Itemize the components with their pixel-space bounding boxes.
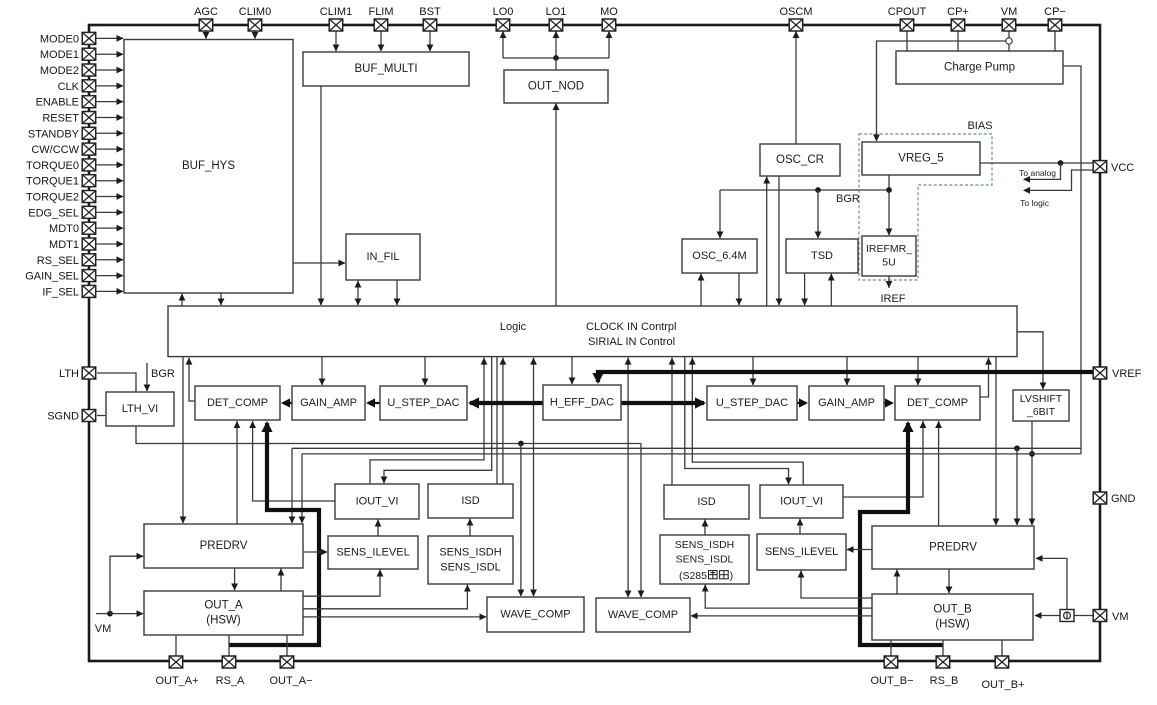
wire PREDRV left to OUT_A [231, 568, 238, 591]
pin OUT_A+ [155, 656, 198, 687]
wire GAIN_AMP right to DET_COMP right [884, 398, 894, 407]
wire CLIM1 to BUF_MULTI [333, 31, 340, 52]
block OUT_B HSW [872, 594, 1033, 640]
svg-text:VM: VM [1112, 611, 1129, 623]
svg-text:BGR: BGR [836, 193, 860, 205]
block ISD left [428, 484, 513, 518]
pin RS_SEL [37, 254, 96, 267]
wire bus B horizontal [292, 445, 1081, 451]
wire LTH pin to LTH_VI [97, 373, 136, 392]
svg-text:MODE1: MODE1 [40, 49, 79, 61]
wire IOUT_VI right output to DET_COMP right [843, 421, 926, 497]
wire CP- to Charge Pump [1054, 31, 1056, 51]
svg-text:IREF: IREF [880, 293, 905, 305]
wire MODE0 to BUF_HYS [96, 35, 124, 42]
wire bus C to PREDRV left [299, 454, 306, 524]
svg-text:OUT_NOD: OUT_NOD [528, 81, 584, 93]
svg-text:CPOUT: CPOUT [888, 6, 927, 18]
block WAVE_COMP left [487, 597, 584, 632]
block DET_COMP right [895, 386, 980, 420]
label To analog [1019, 168, 1056, 178]
wire CP+ to Charge Pump [957, 31, 959, 51]
svg-text:WAVE_COMP: WAVE_COMP [608, 609, 678, 621]
wire thick H_EFF_DAC to U_STEP_DAC right [621, 397, 706, 408]
pin MO [600, 6, 618, 31]
wire IN_FIL bottom to Logic [394, 280, 401, 306]
block U_STEP_DAC left [380, 386, 467, 420]
svg-text:(S285: (S285 [679, 570, 707, 582]
wire bus B to PREDRV left [289, 448, 296, 523]
wire SENS_ILEVEL right to IOUT_VI right [797, 519, 804, 535]
pin STANDBY [28, 127, 96, 140]
wire Logic to IOUT_VI right top (lower) [685, 357, 792, 485]
pin MODE0 [40, 32, 96, 45]
wire Logic to H_EFF_DAC [569, 357, 576, 385]
svg-text:MODE0: MODE0 [40, 33, 79, 45]
svg-text:CLK: CLK [58, 81, 80, 93]
block ISD right [664, 485, 749, 519]
block LTH_VI [106, 392, 174, 426]
pin OUT_B+ [981, 656, 1024, 691]
wire BST to BUF_MULTI [427, 31, 434, 52]
wire Logic to PREDRV right top [993, 357, 1000, 526]
wire Logic to U_STEP_DAC left [422, 357, 429, 386]
wire thick RS_B sense to DET_COMP right [860, 421, 943, 645]
block PREDRV right [872, 526, 1034, 569]
svg-text:H_EFF_DAC: H_EFF_DAC [550, 396, 614, 408]
wire AGC to BUF_HYS [203, 31, 210, 39]
wire bus A to WAVE_COMP left [518, 444, 525, 597]
pin AGC [194, 6, 218, 31]
svg-text:MDT0: MDT0 [49, 223, 79, 235]
pin GND [1093, 492, 1135, 505]
wire bus to OUT_NOD top [555, 58, 557, 70]
pin OSCM [780, 6, 813, 31]
wire TSD bottom to Logic [801, 273, 808, 306]
wire IOUT_VI left top to Logic (upper) [370, 358, 487, 484]
wire IF_SEL to BUF_HYS [96, 288, 124, 295]
block IOUT_VI right [760, 485, 843, 518]
svg-text:LVSHIFT: LVSHIFT [1020, 393, 1063, 405]
wire Logic to PREDRV left top [180, 357, 187, 524]
wire BGR to LTH_VI [144, 363, 151, 392]
svg-text:LO1: LO1 [546, 6, 567, 18]
svg-text:IREFMR_: IREFMR_ [866, 243, 912, 255]
wire VM tap to VREG_5 [873, 41, 1006, 142]
wire Logic to U_STEP_DAC right [750, 357, 757, 386]
svg-text:To analog: To analog [1019, 168, 1056, 178]
wire SENS_ISDH left to ISD left [467, 519, 474, 537]
block GAIN_AMP right [809, 386, 884, 420]
block LVSHIFT_6BIT [1013, 390, 1069, 421]
svg-text:SENS_ISDH: SENS_ISDH [439, 546, 501, 558]
wire LO0 from output bus [500, 31, 507, 58]
svg-text:CP−: CP− [1044, 6, 1066, 18]
svg-text:(HSW): (HSW) [935, 619, 970, 631]
wire CW/CCW to BUF_HYS [96, 146, 124, 153]
wire VM pin to Charge Pump [1008, 31, 1010, 51]
svg-text:TORQUE0: TORQUE0 [26, 160, 79, 172]
pin BST [419, 6, 441, 31]
pin RS_A [216, 656, 245, 687]
wire ferrite to PREDRV right [1036, 555, 1068, 610]
svg-text:OUT_B−: OUT_B− [870, 675, 913, 687]
svg-text:SENS_ISDL: SENS_ISDL [440, 561, 501, 573]
pin MDT0 [49, 222, 96, 235]
svg-text:ISD: ISD [697, 496, 715, 508]
pin MODE2 [40, 64, 96, 77]
block SENS_ILEVEL right [757, 534, 846, 570]
wire thick H_EFF_DAC to U_STEP_DAC left [468, 397, 543, 408]
wire VM left net [96, 611, 113, 617]
label BGR [836, 193, 860, 205]
wire OUT_A to WAVE_COMP left [303, 614, 487, 621]
svg-text:U_STEP_DAC: U_STEP_DAC [716, 397, 788, 409]
pin LTH [59, 367, 96, 380]
svg-text:WAVE_COMP: WAVE_COMP [500, 608, 570, 620]
pin RS_B [930, 656, 959, 687]
svg-text:GND: GND [1111, 493, 1136, 505]
svg-text:5U: 5U [882, 257, 895, 269]
wire OSC_CR to OSCM pin [793, 31, 800, 144]
svg-text:DET_COMP: DET_COMP [207, 397, 268, 409]
svg-text:RS_SEL: RS_SEL [37, 255, 79, 267]
wire SGND to LTH_VI [97, 415, 106, 417]
wire GAIN_SEL to BUF_HYS [96, 272, 124, 279]
svg-text:SENS_ISDH: SENS_ISDH [675, 539, 735, 551]
block U_STEP_DAC right [707, 386, 797, 420]
wire Logic to TSD bottom [828, 274, 835, 307]
wire OUT_B to RS_B pin [942, 640, 944, 656]
wire VM left to PREDRV left [110, 553, 144, 614]
svg-text:OUT_A−: OUT_A− [269, 675, 312, 687]
wire ISD right output to Logic [669, 358, 676, 485]
block VREG_5 [862, 142, 980, 175]
wire CLIM0 to BUF_HYS [252, 31, 259, 39]
wire Logic to ISD left top [496, 357, 498, 484]
block DET_COMP left [195, 386, 280, 420]
svg-text:SENS_ISDL: SENS_ISDL [676, 553, 734, 565]
wire BUF_MULTI to Logic [318, 86, 325, 306]
pin MODE1 [40, 48, 96, 61]
svg-text:(HSW): (HSW) [206, 615, 241, 627]
pin CP+ [947, 6, 969, 31]
wire U_STEP_DAC right to GAIN_AMP right [797, 398, 808, 407]
wire thick VREF bus to H_EFF_DAC [592, 372, 1093, 384]
wire Logic to BUF_HYS bottom [179, 294, 186, 307]
pin EDG_SEL [28, 206, 96, 219]
svg-text:CLIM1: CLIM1 [320, 6, 352, 18]
wire PREDRV right to DET_COMP right [935, 421, 942, 526]
wire BGR to OSC_6.4M [717, 190, 724, 239]
wire TORQUE1 to BUF_HYS [96, 177, 124, 184]
wire LTH_VI output bus A [136, 426, 641, 446]
wire BGR net horizontal with junctions [720, 187, 892, 193]
svg-text:MDT1: MDT1 [49, 239, 79, 251]
wire Logic to OSC_6.4M bottom [698, 274, 705, 307]
wire OUT_B to OUT_B- pin [890, 640, 892, 656]
wire Logic to IOUT_VI left top (lower) [381, 357, 492, 484]
svg-text:MO: MO [600, 6, 618, 18]
svg-text:AGC: AGC [194, 6, 218, 18]
wire To logic branch [1023, 170, 1093, 194]
wire PREDRV right to OUT_B [946, 569, 953, 594]
svg-text:FLIM: FLIM [368, 6, 393, 18]
wire OUT_A to PREDRV left [278, 569, 285, 592]
wire OUT_B to SENS_ILEVEL right bottom [798, 571, 872, 599]
wire CPOUT to Charge Pump [906, 31, 908, 51]
svg-text:RESET: RESET [42, 112, 79, 124]
svg-text:STANDBY: STANDBY [28, 128, 80, 140]
svg-text:BIAS: BIAS [967, 120, 992, 132]
svg-text:IOUT_VI: IOUT_VI [356, 495, 399, 507]
block OSC_CR [760, 144, 840, 176]
block Charge Pump [896, 51, 1063, 84]
wire IOUT_VI left output to DET_COMP left [249, 421, 335, 501]
wire IREF from IREFMR_5U [886, 276, 893, 288]
block IN_FIL [346, 234, 420, 280]
wire VREG_5 to IREFMR (BGR net vertical) [886, 175, 893, 236]
pin TORQUE0 [26, 159, 96, 172]
svg-text:OSC_CR: OSC_CR [776, 154, 824, 166]
label BGR near LTH_VI [151, 368, 175, 380]
wire OSC_CR bottom to Logic [776, 176, 783, 306]
pin ENABLE [36, 96, 96, 109]
block H_EFF_DAC [543, 385, 621, 420]
pin IF_SEL [42, 285, 95, 298]
block OSC_6.4M [682, 239, 757, 273]
wire TORQUE0 to BUF_HYS [96, 162, 124, 169]
svg-text:IF_SEL: IF_SEL [42, 286, 79, 298]
label IREF [880, 293, 905, 305]
pin TORQUE1 [26, 175, 96, 188]
wire Logic to GAIN_AMP right [844, 357, 851, 386]
svg-text:CP+: CP+ [947, 6, 969, 18]
block GAIN_AMP left [292, 386, 365, 420]
svg-text:ENABLE: ENABLE [36, 97, 79, 109]
svg-text:CLOCK IN Contrpl: CLOCK IN Contrpl [586, 321, 676, 333]
pin CW/CCW [31, 143, 95, 156]
wire RS_SEL to BUF_HYS [96, 256, 124, 263]
svg-text:CLIM0: CLIM0 [239, 6, 271, 18]
wire Logic to OUT_NOD bottom [553, 103, 560, 306]
pin OUT_B&#8722; [870, 656, 913, 687]
block WAVE_COMP right [596, 598, 690, 632]
pin CP&#8722; [1044, 6, 1066, 31]
wire Logic to IN_FIL bottom [355, 281, 362, 306]
pin GAIN_SEL [25, 270, 96, 283]
block BUF_HYS [124, 40, 293, 294]
pin LO0 [493, 6, 514, 31]
wire LO1 from output bus [553, 31, 560, 58]
wire VREG_5 output to VCC pin [980, 160, 1093, 166]
wire DET_COMP right output to Logic [980, 358, 992, 397]
label (S285 kanji) in SENS_ISDH right block [679, 570, 733, 582]
wire OUT_A to OUT_A- pin [286, 635, 288, 656]
svg-text:SENS_ILEVEL: SENS_ILEVEL [336, 546, 409, 558]
pin VM right [1093, 610, 1128, 624]
wire bus C horizontal [302, 453, 1081, 455]
svg-text:BUF_MULTI: BUF_MULTI [354, 63, 417, 75]
wire MO from output bus [606, 31, 613, 58]
block Logic / serial control [168, 306, 1017, 357]
svg-text:VM: VM [1001, 6, 1018, 18]
pin CPOUT [888, 6, 927, 31]
wire IOUT_VI right top to Logic (upper) [689, 358, 803, 485]
svg-text:SGND: SGND [47, 411, 79, 423]
wire PREDRV right to SENS_ILEVEL right [847, 546, 873, 553]
outer border frame of IC block diagram [89, 25, 1100, 661]
wire OUT_A to OUT_A+ pin [175, 635, 177, 656]
svg-text:U_STEP_DAC: U_STEP_DAC [387, 397, 459, 409]
block OUT_A HSW [144, 591, 303, 635]
wire MODE1 to BUF_HYS [96, 51, 124, 58]
svg-text:DET_COMP: DET_COMP [907, 397, 968, 409]
wire output node bus with junction [503, 55, 609, 61]
wire CLK to BUF_HYS [96, 82, 124, 89]
svg-text:BGR: BGR [151, 368, 175, 380]
wire EDG_SEL to BUF_HYS [96, 209, 124, 216]
wire OUT_B to PREDRV right [894, 570, 901, 595]
svg-text:EDG_SEL: EDG_SEL [28, 207, 79, 219]
wire MDT1 to BUF_HYS [96, 241, 124, 248]
svg-text:LTH: LTH [59, 368, 79, 380]
label BIAS [967, 120, 992, 132]
wire bus B to PREDRV right [1014, 448, 1021, 525]
block IOUT_VI left [335, 484, 419, 519]
pin TORQUE2 [26, 191, 96, 204]
wire bus A corner to WAVE_COMP right [638, 444, 645, 598]
svg-text:OUT_A+: OUT_A+ [155, 675, 198, 687]
wire RESET to BUF_HYS [96, 114, 124, 121]
svg-text:OUT_B+: OUT_B+ [981, 679, 1024, 691]
pin RESET [42, 112, 95, 125]
block BUF_MULTI [303, 52, 469, 86]
pin VM [1001, 6, 1018, 31]
svg-text:_6BIT: _6BIT [1026, 406, 1056, 418]
label VM left [95, 623, 112, 635]
svg-text:GAIN_SEL: GAIN_SEL [25, 271, 79, 283]
svg-text:BST: BST [419, 6, 441, 18]
wire ISD left output to Logic [500, 358, 507, 484]
wire MDT0 to BUF_HYS [96, 225, 124, 232]
svg-text:TSD: TSD [811, 250, 833, 262]
svg-text:To logic: To logic [1020, 198, 1050, 208]
wire OUT_B to WAVE_COMP right [691, 613, 873, 620]
wire DET_COMP left output to Logic [186, 358, 195, 401]
wire BGR to TSD [815, 190, 822, 239]
svg-text:VREF: VREF [1112, 368, 1142, 380]
svg-text:OSCM: OSCM [780, 6, 813, 18]
wire Logic to OSC_CR bottom [763, 177, 770, 307]
wire Logic to GAIN_AMP left [319, 357, 326, 386]
svg-text:SENS_ILEVEL: SENS_ILEVEL [765, 546, 838, 558]
svg-text:VM: VM [95, 623, 112, 635]
wire Charge Pump to right rail [1063, 66, 1081, 454]
wire To analog branch [1023, 163, 1061, 183]
wire Logic to LVSHIFT_6BIT [1017, 332, 1046, 390]
svg-text:PREDRV: PREDRV [929, 542, 977, 554]
svg-text:VREG_5: VREG_5 [898, 153, 943, 165]
pin CLIM0 [239, 6, 271, 31]
block SENS_ISDH SENS_ISDL S285 right [660, 535, 749, 584]
svg-text:PREDRV: PREDRV [200, 540, 248, 552]
wire Logic to DET_COMP right [915, 357, 922, 386]
svg-text:VCC: VCC [1111, 162, 1134, 174]
svg-text:RS_A: RS_A [216, 675, 245, 687]
svg-text:LTH_VI: LTH_VI [122, 403, 158, 415]
wire BUF_HYS to IN_FIL [293, 260, 346, 267]
block PREDRV left [144, 524, 303, 568]
svg-text:Charge Pump: Charge Pump [944, 62, 1015, 74]
wire OUT_B to SENS_ISDH right bottom [702, 585, 872, 609]
svg-text:IN_FIL: IN_FIL [366, 251, 399, 263]
wire LVSHIFT_6BIT to PREDRV right top [1029, 422, 1036, 526]
wire SENS_ISDH right to ISD right [702, 520, 709, 536]
svg-text:CW/CCW: CW/CCW [31, 144, 79, 156]
pin SGND [47, 410, 96, 423]
wire MODE2 to BUF_HYS [96, 67, 124, 74]
pin VREF [1093, 367, 1141, 380]
svg-text:OUT_B: OUT_B [933, 604, 972, 616]
BIAS dashed region outline [859, 134, 992, 280]
node VM tap circle [1006, 38, 1012, 44]
svg-text:OSC_6.4M: OSC_6.4M [692, 250, 746, 262]
wire Logic to WAVE_COMP left [530, 358, 537, 597]
pin OUT_A&#8722; [269, 656, 312, 687]
wire BUF_HYS bottom to Logic [218, 293, 225, 306]
wire OUT_A to RS_A pin [228, 635, 230, 656]
label To logic [1020, 198, 1050, 208]
wire FLIM to BUF_MULTI [378, 31, 385, 52]
block SENS_ILEVEL left [328, 536, 418, 569]
wire GAIN_AMP left to DET_COMP left [281, 398, 292, 407]
svg-text:TORQUE2: TORQUE2 [26, 192, 79, 204]
svg-text:GAIN_AMP: GAIN_AMP [818, 397, 875, 409]
wire OUT_A to SENS_ILEVEL left bottom [303, 570, 383, 597]
block SENS_ISDH SENS_ISDL left [428, 536, 513, 584]
block TSD [786, 239, 858, 273]
svg-text:LO0: LO0 [493, 6, 514, 18]
svg-text:SIRIAL IN Control: SIRIAL IN Control [588, 336, 675, 348]
wire TORQUE2 to BUF_HYS [96, 193, 124, 200]
svg-text:IOUT_VI: IOUT_VI [780, 495, 823, 507]
svg-text:): ) [730, 570, 734, 582]
svg-text:OUT_A: OUT_A [204, 600, 243, 612]
wire VM pin to ferrite symbol [1074, 615, 1093, 617]
wire OUT_B to OUT_B+ pin [1001, 640, 1003, 656]
pin CLK [58, 80, 96, 93]
pin FLIM [368, 6, 393, 31]
svg-text:Logic: Logic [500, 321, 527, 333]
wire STANDBY to BUF_HYS [96, 130, 124, 137]
svg-text:ISD: ISD [461, 495, 479, 507]
wire U_STEP_DAC left to GAIN_AMP left [366, 398, 380, 407]
svg-text:MODE2: MODE2 [40, 65, 79, 77]
svg-text:RS_B: RS_B [930, 675, 959, 687]
pin CLIM1 [320, 6, 352, 31]
svg-text:BUF_HYS: BUF_HYS [182, 160, 235, 172]
pin LO1 [546, 6, 567, 31]
wire OSC_6.4M bottom to Logic [736, 273, 743, 306]
wire ENABLE to BUF_HYS [96, 98, 124, 105]
pin MDT1 [49, 238, 96, 251]
pin VCC [1093, 161, 1134, 174]
block OUT_NOD [504, 70, 608, 103]
wire SENS_ILEVEL left to IOUT_VI left [375, 520, 382, 537]
block IREFMR_5U [862, 236, 916, 276]
wire Logic to WAVE_COMP right [625, 358, 632, 598]
